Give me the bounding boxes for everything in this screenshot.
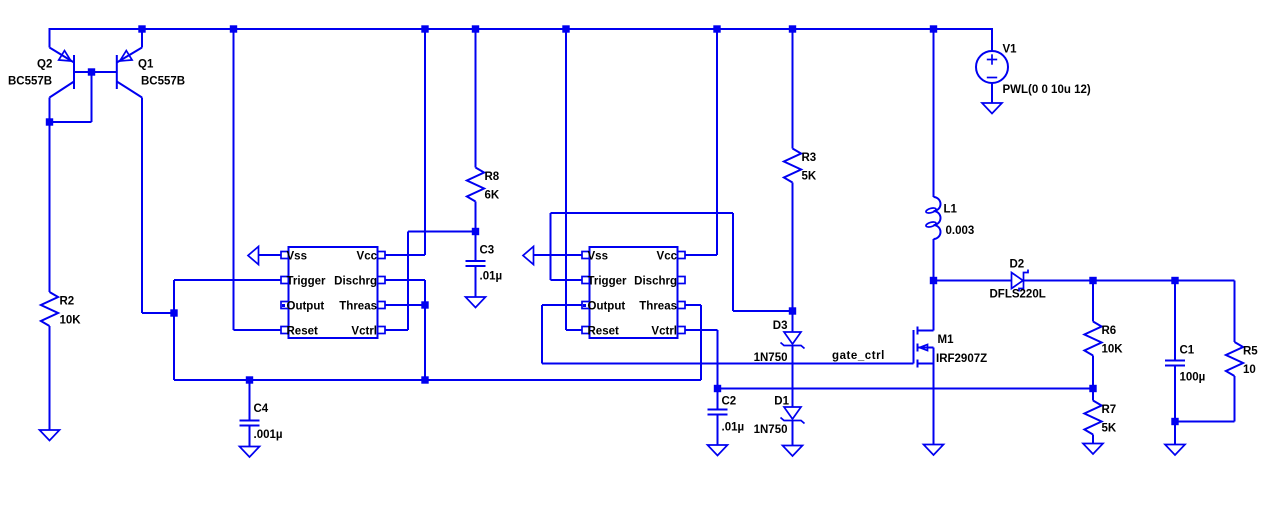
transistor Q2 base bar (73, 55, 75, 89)
svg-text:D2: D2 (1010, 259, 1025, 271)
svg-text:Threas: Threas (339, 300, 377, 312)
voltage source V1 (976, 51, 1008, 83)
wire R6 bottom lead (1092, 356, 1094, 389)
U2 pin Reset box (582, 327, 590, 334)
wire base to collector tie horizontal (50, 121, 92, 123)
ground under V1 (982, 103, 1002, 114)
wire R7 top lead (1092, 389, 1094, 401)
wire base tie Q2-Q1 (74, 71, 117, 73)
wire L1 top lead (933, 29, 935, 197)
wire Vcc2 to riser (685, 254, 717, 256)
U1 pin Reset box (281, 327, 289, 334)
wire C4 bottom lead (249, 426, 251, 447)
svg-text:R7: R7 (1102, 404, 1117, 416)
wire R5 bottom lead (1234, 376, 1236, 422)
svg-text:Vctrl: Vctrl (351, 325, 377, 337)
wire feedback net horizontal (718, 388, 1094, 390)
U2 pin Threas box (678, 302, 686, 309)
wire top supply rail (50, 29, 993, 51)
wire C4 top lead (249, 380, 251, 421)
svg-text:10: 10 (1243, 364, 1256, 376)
svg-text:1N750: 1N750 (754, 424, 788, 436)
svg-text:V1: V1 (1003, 44, 1018, 56)
wire Q2 collector down to R2 (49, 98, 51, 293)
wire Vcc1 to riser (385, 254, 425, 256)
wire R7 bottom lead (1092, 435, 1094, 444)
node output rail at C1 (1171, 277, 1178, 284)
node feedback junction at C2 (714, 385, 721, 392)
U1 pin Trigger box (281, 277, 289, 284)
node collector tie junction (46, 118, 53, 125)
ground under C3 (466, 297, 486, 308)
wire Reset1 to pin (234, 329, 282, 331)
resistor R6 (1084, 322, 1101, 356)
svg-text:Trigger: Trigger (287, 275, 327, 287)
svg-text:R6: R6 (1102, 325, 1117, 337)
wire Vss2 to flag (534, 254, 583, 256)
wire Trigger2 loop top (551, 212, 734, 214)
node rail junction at Vcc1 drop (421, 25, 428, 32)
wire Vctrl1 to riser (385, 329, 408, 331)
transistor Q2 collector (50, 82, 75, 98)
node C4 junction (246, 376, 253, 383)
resistor R3 (784, 149, 801, 183)
node trigger net junction (170, 309, 177, 316)
ground under D1 (783, 446, 803, 457)
svg-text:Output: Output (588, 300, 626, 312)
wire C1 bottom lead (1174, 366, 1176, 422)
ground under R2 (40, 430, 60, 441)
node C1-R5 bottom junction (1171, 418, 1178, 425)
svg-text:5K: 5K (1102, 423, 1117, 435)
U1 pin Vcc box (378, 252, 386, 259)
wire Threas2 riser (700, 305, 702, 380)
svg-text:gate_ctrl: gate_ctrl (832, 350, 885, 362)
svg-text:R3: R3 (802, 152, 817, 164)
ground under C2 (708, 445, 728, 456)
wire output rail right of D2 (1024, 280, 1235, 282)
wire R3 bottom lead (792, 183, 794, 312)
wire C2 bottom lead (717, 415, 719, 446)
wire Vctrl2 drop (717, 330, 719, 389)
wire Trigger1 horizontal (174, 279, 281, 281)
ground under M1 (924, 445, 944, 456)
transistor Q1 emitter arrow (120, 51, 132, 61)
svg-text:IRF2907Z: IRF2907Z (936, 353, 987, 365)
wire Dischrg1 to riser (385, 279, 425, 281)
node base tie junction (88, 68, 95, 75)
U2 pin Dischrg box (678, 277, 686, 284)
wire Vss1 to flag (259, 254, 282, 256)
svg-text:.01µ: .01µ (480, 271, 503, 283)
svg-text:R8: R8 (485, 171, 500, 183)
svg-text:10K: 10K (1102, 344, 1124, 356)
svg-text:C2: C2 (722, 396, 737, 408)
node rail junction at Vcc2 drop (713, 25, 720, 32)
wire Reset2 riser to rail (565, 29, 567, 330)
wire V1 bottom lead (991, 83, 993, 103)
wire D3 cathode to D1 anode (792, 346, 794, 408)
svg-text:D3: D3 (773, 320, 788, 332)
U2 pin Output box (582, 302, 590, 309)
wire D3 anode lead (792, 311, 794, 332)
node timing net junction (421, 376, 428, 383)
capacitor C3 (466, 261, 486, 266)
resistor R2 (41, 292, 58, 326)
wire trigger net vertical (173, 280, 175, 380)
wire bottom timing net horizontal (174, 379, 701, 381)
svg-text:Reset: Reset (287, 325, 318, 337)
node rail junction at Q1 emitter (138, 25, 145, 32)
transistor M1 mosfet (914, 327, 934, 368)
svg-text:M1: M1 (938, 334, 955, 346)
svg-text:Reset: Reset (588, 325, 619, 337)
ground under C4 (240, 447, 260, 458)
svg-text:0.003: 0.003 (946, 225, 975, 237)
svg-text:Dischrg: Dischrg (334, 275, 377, 287)
svg-text:Vctrl: Vctrl (651, 325, 677, 337)
wire R8 bottom lead (475, 202, 477, 232)
wire L1 bottom lead (933, 239, 935, 281)
wire Vctrl1 to R8 bottom (408, 231, 476, 233)
wire gate_ctrl net (542, 363, 914, 365)
svg-text:Vcc: Vcc (657, 250, 678, 262)
U1 pin Vss box (281, 252, 289, 259)
capacitor C2 (708, 410, 728, 415)
diode D3 zener (781, 332, 805, 349)
svg-text:Threas: Threas (639, 300, 677, 312)
wire Dischrg1 drop (424, 280, 426, 380)
svg-text:Trigger: Trigger (588, 275, 628, 287)
svg-text:10K: 10K (60, 315, 82, 327)
transistor Q2 emitter (50, 48, 75, 63)
svg-text:C1: C1 (1180, 345, 1195, 357)
svg-text:Output: Output (287, 300, 325, 312)
transistor Q1 base bar (116, 55, 118, 89)
svg-text:PWL(0 0 10u 12): PWL(0 0 10u 12) (1003, 84, 1091, 96)
svg-text:5K: 5K (802, 171, 817, 183)
svg-text:Vcc: Vcc (357, 250, 378, 262)
U2 pin Trigger box (582, 277, 590, 284)
node rail junction at Reset2 drop (562, 25, 569, 32)
svg-text:.001µ: .001µ (254, 429, 283, 441)
wire Vcc2 riser to rail (716, 29, 718, 255)
wire Trigger2 to riser (551, 279, 583, 281)
U2 pin Vss box (582, 252, 590, 259)
resistor R7 (1084, 401, 1101, 435)
node rail junction at R8 (472, 25, 479, 32)
node output rail at R6 (1089, 277, 1096, 284)
node R8-C3 junction (472, 228, 479, 235)
svg-text:Vss: Vss (588, 250, 608, 262)
svg-text:6K: 6K (485, 190, 500, 202)
wire Trigger2 riser (550, 213, 552, 280)
U1 pin Threas box (378, 302, 386, 309)
wire Vctrl1 riser (407, 232, 409, 331)
node rail junction at Reset1 drop (230, 25, 237, 32)
node divider junction (1089, 385, 1096, 392)
inductor L1 (925, 197, 940, 239)
svg-text:L1: L1 (944, 204, 958, 216)
ground flag at Vss1 (248, 247, 259, 265)
transistor Q1 emitter (117, 48, 142, 63)
wire Threas1 to pin (385, 304, 425, 306)
wire R2 to ground (49, 326, 51, 430)
capacitor C1 (1165, 361, 1185, 366)
wire output rail left of D2 (934, 280, 1012, 282)
svg-text:R2: R2 (60, 296, 75, 308)
U2 pin Vctrl box (678, 327, 686, 334)
wire C3 bottom lead (475, 266, 477, 297)
wire C1 to ground (1174, 422, 1176, 445)
node rail junction at R3 (789, 25, 796, 32)
wire Q1 collector down (141, 98, 143, 314)
wire M1 drain lead (933, 281, 935, 331)
op-amp U1 555 block body (289, 247, 378, 338)
wire D1 cathode to ground (792, 421, 794, 446)
node Threas1 junction (421, 301, 428, 308)
ground under R7 (1083, 444, 1103, 455)
resistor R5 (1226, 342, 1243, 376)
wire Threas2 to pin (685, 304, 701, 306)
wire Q1 collector to trigger net (142, 312, 174, 314)
wire R8 top lead (475, 29, 477, 168)
wire Vctrl2 to riser (685, 329, 718, 331)
diode D2 schottky (1012, 270, 1029, 292)
wire C3 top lead (475, 232, 477, 262)
ground under C1 (1165, 445, 1185, 456)
op-amp U2 555 block body (590, 247, 678, 338)
node L1-D2-M1 junction (930, 277, 937, 284)
wire R3 top lead (792, 29, 794, 149)
wire Reset2 to riser (566, 329, 582, 331)
svg-text:1N750: 1N750 (754, 352, 788, 364)
transistor Q1 emitter lead (141, 29, 143, 48)
wire Output2 drop (541, 305, 543, 364)
wire C1 top lead (1174, 281, 1176, 361)
node rail junction at L1 (930, 25, 937, 32)
transistor Q2 emitter arrow (59, 51, 71, 61)
U2 pin Vcc box (678, 252, 686, 259)
svg-text:D1: D1 (774, 396, 789, 408)
svg-text:Dischrg: Dischrg (634, 275, 677, 287)
wire Trigger2 loop to D3 (733, 310, 793, 312)
svg-text:C4: C4 (254, 403, 269, 415)
svg-text:100µ: 100µ (1180, 372, 1206, 384)
resistor R8 (467, 168, 484, 202)
node D3 top junction (789, 307, 796, 314)
diode D1 zener (781, 407, 805, 424)
U1 pin Dischrg box (378, 277, 386, 284)
U1 pin Output box (281, 302, 289, 309)
svg-text:R5: R5 (1243, 346, 1258, 358)
svg-text:BC557B: BC557B (8, 76, 52, 88)
svg-text:Vss: Vss (287, 250, 307, 262)
wire M1 source to ground (933, 348, 935, 445)
wire R5 bottom to C1 (1175, 421, 1235, 423)
svg-text:C3: C3 (480, 245, 495, 257)
wire R6 top lead (1092, 281, 1094, 322)
ground flag at Vss2 (523, 247, 534, 265)
svg-text:DFLS220L: DFLS220L (990, 289, 1046, 301)
wire R5 top lead (1234, 281, 1236, 343)
wire Output2 to riser (542, 304, 582, 306)
transistor Q1 collector (117, 82, 142, 98)
wire C2 top lead (717, 389, 719, 410)
U1 pin Vctrl box (378, 327, 386, 334)
svg-text:Q1: Q1 (138, 59, 154, 71)
svg-text:BC557B: BC557B (141, 76, 185, 88)
capacitor C4 (240, 421, 260, 426)
wire Trigger2 loop drop (732, 213, 734, 311)
svg-text:Q2: Q2 (37, 59, 52, 71)
svg-text:.01µ: .01µ (722, 422, 745, 434)
wire base to collector tie vertical (91, 72, 93, 122)
wire Vcc1 riser to rail (424, 29, 426, 255)
wire Reset1 riser from rail (233, 29, 235, 330)
